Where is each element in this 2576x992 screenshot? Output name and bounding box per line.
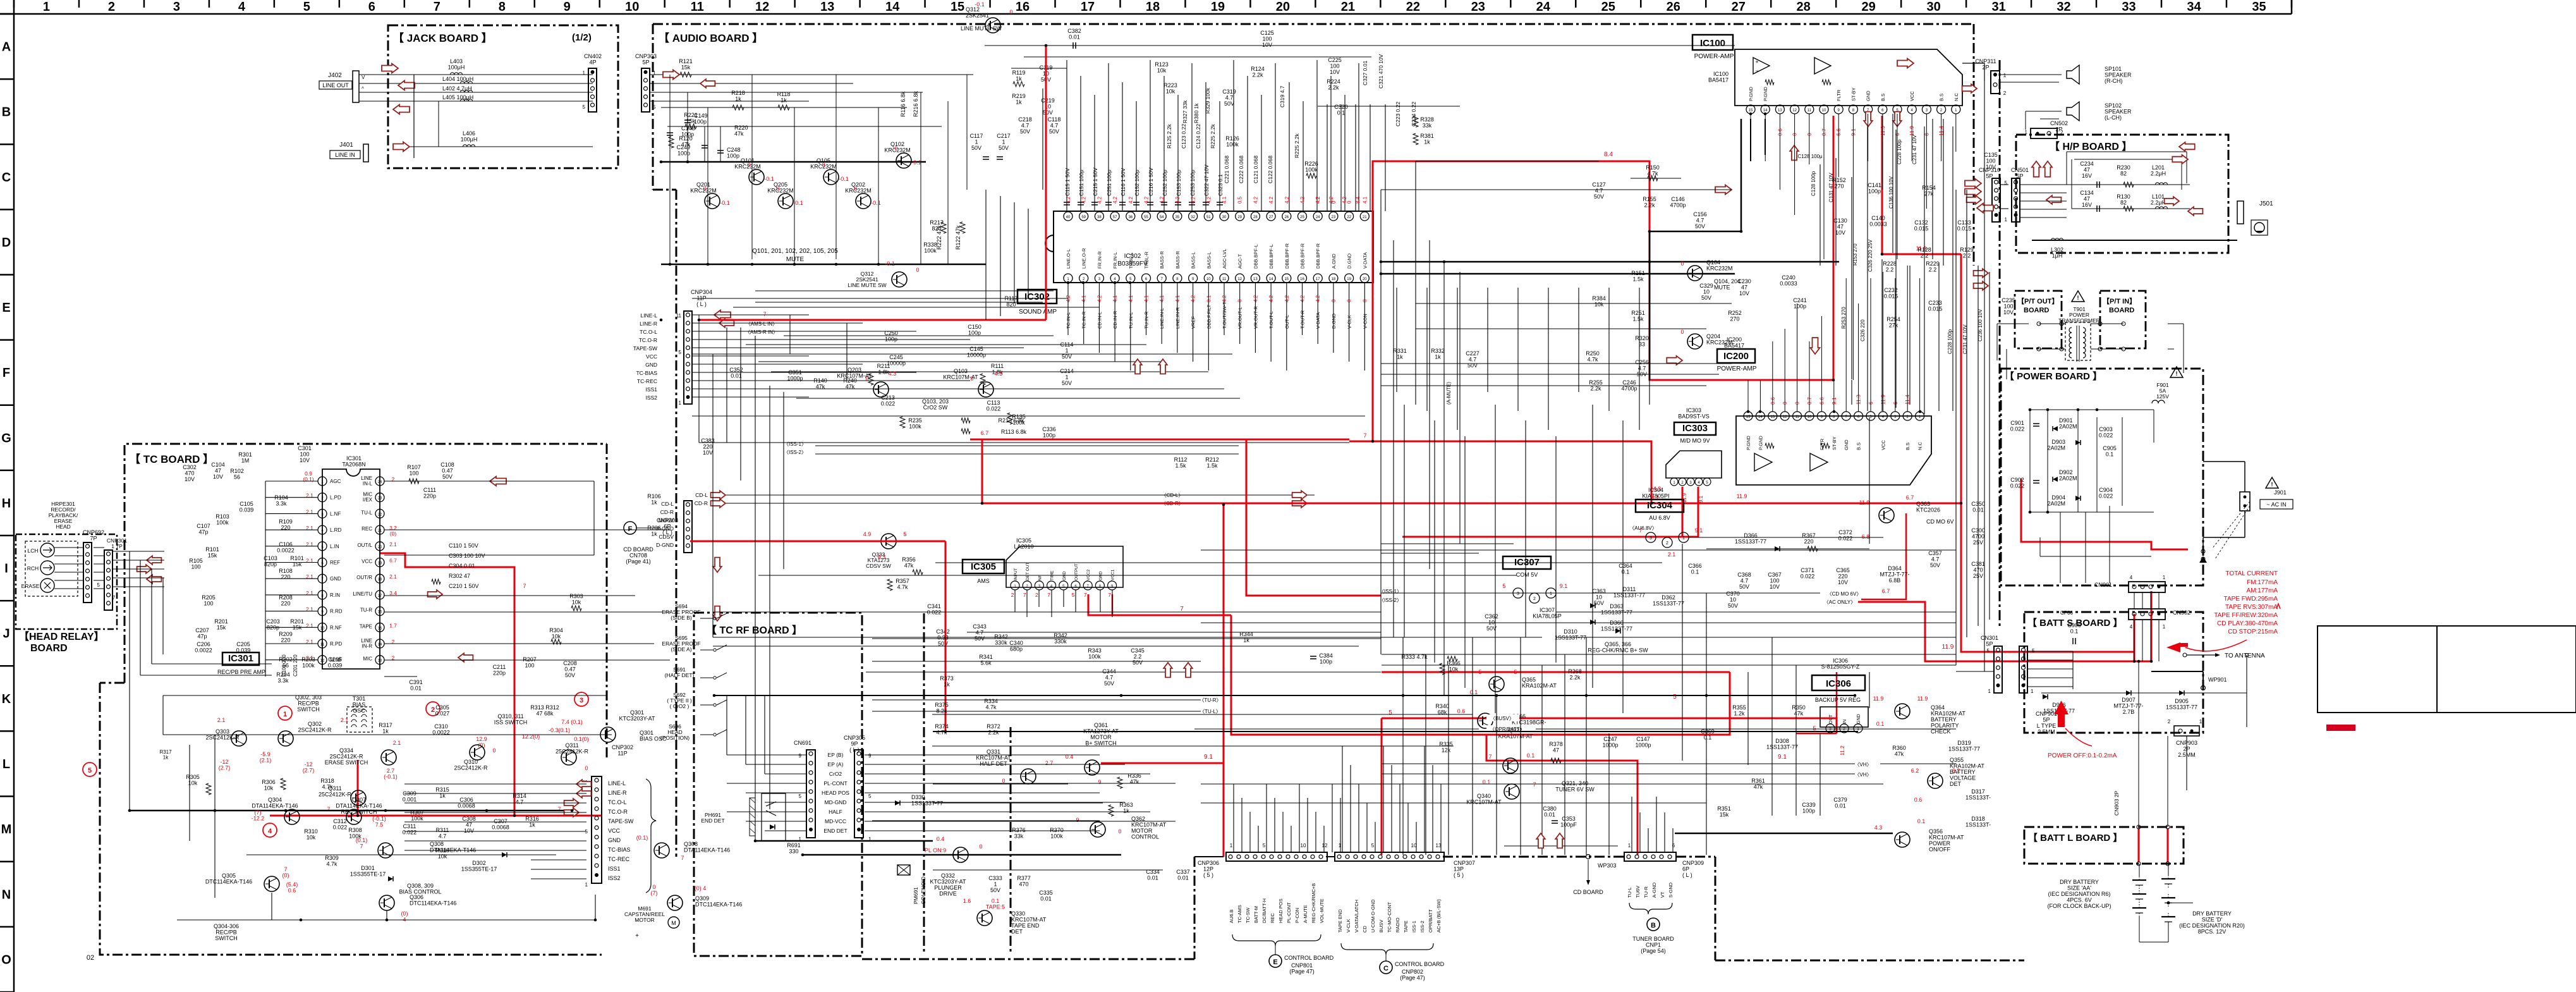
svg-text:9: 9	[1076, 817, 1079, 823]
svg-text:J401: J401	[339, 142, 353, 149]
inductor L406	[463, 145, 475, 147]
svg-text:4.2: 4.2	[1284, 196, 1290, 204]
transistor Q308b	[654, 843, 669, 858]
svg-text:8.4: 8.4	[1355, 196, 1361, 204]
wire bundle IC200 pin ups	[1747, 380, 1749, 412]
svg-text:CN902: CN902	[2173, 609, 2190, 616]
svg-text:4.2: 4.2	[1342, 196, 1347, 204]
wire bundle vertical drops IC302 bottom to lower region	[1067, 283, 1069, 335]
svg-text:TAPE-SW: TAPE-SW	[608, 818, 634, 824]
transistor Q309	[667, 895, 683, 910]
svg-text:LINE-R: LINE-R	[608, 790, 627, 796]
wire C382 top line	[985, 45, 1735, 46]
svg-text:〈ISS-2〉: 〈ISS-2〉	[1379, 597, 1402, 603]
svg-text:1: 1	[43, 0, 50, 14]
power board to CN901 wires	[2060, 512, 2061, 583]
svg-text:4.2: 4.2	[1159, 196, 1165, 204]
svg-text:〈TU-L〉: 〈TU-L〉	[1200, 709, 1221, 714]
transistor Q303	[231, 731, 246, 746]
arrows above IC305	[1133, 359, 1142, 374]
wire bundle IC100-IC200 column verticals	[1867, 126, 1868, 411]
svg-text:3: 3	[1649, 536, 1652, 541]
svg-text:MD-VCC: MD-VCC	[825, 818, 846, 824]
arrow signal flow jack-out2	[393, 105, 410, 114]
svg-text:N.C: N.C	[1953, 93, 1959, 102]
svg-text:11: 11	[320, 643, 325, 647]
svg-text:R126100k: R126100k	[1225, 135, 1239, 148]
svg-text:11: 11	[691, 0, 704, 14]
svg-text:12: 12	[1783, 415, 1787, 419]
svg-text:33: 33	[2122, 0, 2136, 14]
svg-text:ISS2: ISS2	[646, 395, 658, 401]
transistor Q331	[1021, 769, 1036, 784]
wire tc gnd bus	[130, 810, 572, 812]
arrow audio in	[663, 70, 679, 80]
svg-text:9.1: 9.1	[1778, 754, 1787, 761]
svg-text:C327 0.01: C327 0.01	[1362, 61, 1368, 85]
svg-text:C210 1 50V: C210 1 50V	[449, 583, 479, 589]
wire bundle center tall verticals	[985, 190, 987, 320]
wire bundle CNP305 right	[865, 754, 948, 756]
svg-text:VCC: VCC	[361, 559, 372, 565]
svg-text:1: 1	[2163, 575, 2166, 580]
svg-text:0: 0	[776, 186, 779, 192]
wire bundle head relay to tc	[112, 551, 164, 552]
svg-text:D-GND: D-GND	[656, 542, 674, 548]
svg-text:1: 1	[868, 836, 872, 842]
wires IC100 to speakers	[1750, 119, 1751, 161]
red leader arrow	[2185, 640, 2247, 651]
svg-text:C1471000p: C1471000p	[1635, 736, 1651, 749]
svg-text:FR.IN-L: FR.IN-L	[1112, 252, 1118, 269]
svg-text:CD STOP:215mA: CD STOP:215mA	[2228, 628, 2278, 635]
svg-text:C215 1 50V: C215 1 50V	[1092, 168, 1098, 196]
red trace vertical 1554	[981, 439, 983, 503]
svg-text:3.4: 3.4	[389, 590, 397, 596]
svg-text:B.S: B.S	[1880, 94, 1886, 101]
svg-text:5: 5	[1502, 583, 1505, 589]
svg-text:B.S: B.S	[1939, 94, 1945, 101]
svg-text:R235100k: R235100k	[908, 417, 922, 430]
hp board bottom inductor	[2032, 240, 2237, 241]
svg-text:C221 0.068: C221 0.068	[1224, 156, 1230, 183]
svg-text:C101 220: C101 220	[281, 654, 287, 677]
svg-text:0: 0	[970, 376, 973, 382]
svg-text:R327 33k: R327 33k	[1182, 100, 1188, 123]
svg-text:C122 0.068: C122 0.068	[1267, 156, 1273, 183]
svg-text:7: 7	[1488, 754, 1492, 760]
svg-text:F: F	[3, 366, 10, 380]
red tick far right	[2276, 604, 2280, 609]
svg-text:DBB.BPF-R: DBB.BPF-R	[1315, 243, 1321, 269]
wire thick vcc zone	[698, 315, 700, 354]
svg-text:【P/T IN】: 【P/T IN】	[2103, 297, 2136, 305]
wire bundle into CNP302	[531, 783, 586, 785]
svg-text:IC306: IC306	[1826, 678, 1851, 689]
svg-text:C3820.01: C3820.01	[1067, 28, 1081, 40]
svg-text:C3050.027: C3050.027	[435, 704, 450, 717]
svg-text:CD-L: CD-L	[695, 492, 708, 498]
svg-text:15: 15	[378, 627, 382, 630]
svg-text:GND: GND	[1857, 714, 1861, 724]
svg-text:1: 1	[1628, 843, 1631, 848]
wire jack vertical returns	[413, 75, 415, 158]
svg-text:CP06: CP06	[2060, 610, 2074, 616]
svg-text:1: 1	[1682, 536, 1685, 541]
svg-text:TU-R: TU-R	[1643, 886, 1649, 898]
svg-text:20: 20	[1363, 278, 1367, 281]
svg-text:4.2: 4.2	[1128, 196, 1134, 204]
svg-text:LINEIN-R: LINEIN-R	[361, 638, 372, 649]
svg-text:C2400.0033: C2400.0033	[1780, 274, 1797, 287]
svg-text:TU-R: TU-R	[360, 608, 372, 613]
svg-text:R1242.2k: R1242.2k	[1251, 66, 1265, 78]
svg-text:C9010.022: C9010.022	[2010, 420, 2025, 432]
svg-text:2: 2	[2060, 130, 2063, 135]
svg-text:BOARD: BOARD	[2024, 307, 2049, 314]
red trace bottom center network	[1223, 505, 1225, 857]
top ruler ticks and column numbers 1-35	[13, 0, 15, 8]
wire verticals IC305 up	[1014, 590, 1016, 612]
connector CNP901 5P	[2019, 646, 2027, 693]
svg-text:R125 2.2k: R125 2.2k	[1166, 124, 1172, 149]
svg-text:7: 7	[1180, 606, 1184, 613]
svg-text:12: 12	[320, 659, 325, 663]
svg-text:C9040.022: C9040.022	[2099, 487, 2113, 499]
resistor R222 R122 verticals	[941, 222, 946, 233]
svg-text:TC-AMS: TC-AMS	[1237, 905, 1242, 923]
transistor Q310b	[470, 745, 485, 760]
svg-text:L402 4.7μH: L402 4.7μH	[442, 85, 472, 92]
svg-text:MO6V: MO6V	[659, 517, 674, 524]
svg-text:C2060.0022: C2060.0022	[195, 641, 212, 654]
wires from p/t to power board	[1997, 323, 2029, 324]
op-amp IC100 power amp	[1692, 35, 1733, 50]
svg-text:2.1: 2.1	[389, 541, 397, 548]
svg-text:V: V	[361, 75, 365, 80]
wire bundle mute zone verticals	[669, 75, 671, 264]
svg-text:HALF: HALF	[829, 809, 842, 815]
svg-text:POWER OFF:0.1-0.2mA: POWER OFF:0.1-0.2mA	[2048, 752, 2117, 759]
svg-text:35: 35	[1176, 216, 1180, 219]
warning triangle power board	[2170, 367, 2183, 377]
svg-text:C: C	[2, 171, 11, 185]
svg-text:C3090.001: C3090.001	[403, 790, 417, 803]
svg-text:5: 5	[1673, 694, 1677, 701]
svg-text:4.2: 4.2	[1066, 196, 1071, 204]
svg-text:VCC: VCC	[608, 828, 621, 834]
svg-text:R.RD: R.RD	[330, 609, 343, 615]
red trace 9.1 long line y798	[982, 503, 1961, 505]
arrow L406	[393, 142, 410, 152]
svg-text:+: +	[1755, 59, 1758, 65]
svg-text:55: 55	[1144, 216, 1148, 219]
svg-text:15: 15	[1749, 109, 1753, 113]
svg-text:R3184.7k: R3184.7k	[320, 778, 334, 790]
svg-text:C24510000p: C24510000p	[887, 354, 906, 367]
svg-text:C1080.4750V: C1080.4750V	[440, 462, 454, 480]
svg-text:INPUT: INPUT	[1014, 568, 1018, 580]
capacitor C148	[669, 101, 671, 162]
board outline BATT L BOARD	[2024, 827, 2184, 864]
wire bundle audio-in from CNP303	[650, 74, 973, 75]
svg-text:7: 7	[112, 595, 116, 601]
svg-text:4.2: 4.2	[1328, 196, 1334, 204]
svg-text:LINE.O-L: LINE.O-L	[1066, 249, 1071, 269]
svg-text:C103820p: C103820p	[264, 555, 277, 568]
red trace IC303 drops	[1682, 487, 1684, 537]
svg-text:9: 9	[1098, 779, 1101, 785]
svg-text:CNP9015PL TYPE2.5MM: CNP9015PL TYPE2.5MM	[2036, 711, 2057, 735]
transistor Q203	[873, 382, 889, 397]
svg-text:24: 24	[1536, 0, 1551, 14]
svg-text:27: 27	[1269, 216, 1273, 219]
svg-text:C: C	[1383, 965, 1388, 972]
svg-text:0: 0	[916, 267, 919, 273]
svg-text:C248100p: C248100p	[727, 147, 741, 159]
svg-text:R307100k: R307100k	[410, 809, 424, 822]
svg-text:54: 54	[1160, 216, 1164, 219]
svg-text:10: 10	[1301, 843, 1306, 848]
svg-text:TU-L: TU-L	[361, 510, 372, 515]
IC301 label box	[222, 652, 259, 665]
svg-text:CNP801(Page 47): CNP801(Page 47)	[1289, 962, 1315, 975]
svg-text:4.1: 4.1	[1362, 196, 1368, 204]
svg-text:〈VH〉: 〈VH〉	[1854, 762, 1871, 768]
svg-text:VCC1: VCC1	[1111, 569, 1115, 580]
svg-text:C203820p: C203820p	[266, 618, 280, 631]
svg-text:C153 100p: C153 100p	[1176, 169, 1182, 196]
board outline TC BOARD	[125, 444, 607, 683]
svg-text:TU-L: TU-L	[1627, 887, 1632, 898]
svg-text:26: 26	[1284, 216, 1289, 219]
svg-text:14: 14	[378, 643, 382, 647]
svg-text:L406100μH: L406100μH	[461, 130, 478, 143]
svg-text:2: 2	[1035, 592, 1038, 598]
svg-text:ISS-1: ISS-1	[1411, 921, 1417, 933]
svg-text:C251 100p: C251 100p	[1106, 169, 1112, 196]
svg-text:C1464700p: C1464700p	[1670, 196, 1686, 209]
svg-text:O: O	[1, 953, 11, 967]
connector CNP307 13P	[1335, 852, 1444, 861]
contact WP303	[1586, 855, 1591, 859]
svg-text:R113 6.8k: R113 6.8k	[1001, 429, 1027, 435]
wire bundle CNP304 to center	[692, 314, 809, 315]
svg-text:24: 24	[1316, 216, 1320, 219]
speaker SP101	[2067, 65, 2079, 84]
svg-text:R329 100k: R329 100k	[1205, 87, 1211, 114]
svg-text:TO ANTENNA: TO ANTENNA	[2225, 652, 2265, 659]
svg-text:R116 6.8k: R116 6.8k	[900, 91, 906, 117]
svg-text:0.1: 0.1	[1483, 779, 1491, 785]
svg-text:L.RD: L.RD	[330, 527, 341, 533]
svg-text:-0.1: -0.1	[975, 1, 985, 8]
svg-text:7.4 (0.1): 7.4 (0.1)	[561, 719, 583, 725]
transistor Q105	[823, 169, 839, 185]
svg-text:BUSV: BUSV	[1378, 920, 1384, 933]
svg-text:13: 13	[1778, 109, 1782, 113]
svg-text:2.1: 2.1	[393, 740, 401, 746]
hp wires	[2067, 151, 2187, 152]
wires c225 column	[1327, 104, 1328, 211]
svg-text:11.9: 11.9	[1737, 493, 1747, 499]
svg-text:~ AC IN: ~ AC IN	[2266, 501, 2286, 508]
transistor Q307b rec switch	[346, 809, 361, 824]
transistor Q311 iss	[351, 790, 366, 805]
svg-text:0.1: 0.1	[1527, 752, 1535, 759]
svg-text:R117820: R117820	[1005, 295, 1018, 308]
wires head to connectors	[54, 547, 83, 548]
svg-text:7: 7	[1108, 592, 1111, 598]
svg-text:1: 1	[1230, 843, 1233, 848]
svg-text:20: 20	[1276, 0, 1290, 14]
capacitor C249	[704, 126, 705, 162]
svg-text:2: 2	[1533, 597, 1536, 601]
board outline middle divider	[923, 613, 925, 954]
svg-text:【 H/P BOARD 】: 【 H/P BOARD 】	[2050, 141, 2132, 152]
svg-text:5: 5	[799, 793, 802, 799]
svg-text:0: 0	[703, 186, 706, 192]
svg-text:4.3: 4.3	[1653, 486, 1662, 492]
svg-text:EP (B): EP (B)	[828, 752, 844, 758]
svg-text:-0.1: -0.1	[871, 200, 881, 206]
wires motor control	[933, 783, 1068, 785]
svg-text:7: 7	[1639, 527, 1642, 534]
svg-text:GND: GND	[1866, 90, 1871, 101]
svg-text:5: 5	[868, 793, 872, 799]
svg-text:A: A	[2, 40, 11, 54]
svg-text:2: 2	[1011, 592, 1014, 598]
svg-text:GND: GND	[608, 837, 621, 843]
svg-text:11.9: 11.9	[1873, 695, 1884, 702]
svg-text:【 JACK BOARD 】: 【 JACK BOARD 】	[393, 32, 492, 44]
inductor L405	[460, 99, 472, 101]
svg-text:28: 28	[1253, 216, 1258, 219]
svg-text:5: 5	[1813, 725, 1816, 732]
svg-text:AGC: AGC	[330, 479, 341, 484]
svg-text:【 TC RF BOARD 】: 【 TC RF BOARD 】	[707, 625, 802, 636]
svg-text:OUT: OUT	[1829, 714, 1833, 725]
svg-text:40: 40	[1066, 216, 1071, 219]
svg-text:RADIO: RADIO	[1395, 917, 1400, 933]
svg-text:REC: REC	[361, 526, 372, 532]
red trace AC ONLY path	[1858, 602, 2151, 661]
svg-text:C14510000p: C14510000p	[967, 346, 986, 358]
svg-text:A-GND: A-GND	[1651, 882, 1657, 898]
svg-text:5: 5	[653, 104, 656, 110]
svg-text:〈TU-R〉: 〈TU-R〉	[1199, 697, 1221, 703]
transistor Q306	[379, 895, 394, 910]
svg-text:END DET: END DET	[823, 828, 847, 834]
board outline right section divider	[1999, 60, 2001, 626]
circled F CD board	[624, 522, 636, 534]
svg-text:!: !	[2176, 370, 2178, 377]
wire bundle IC302 top vertical columns	[1066, 60, 1067, 211]
svg-text:TRBL-L: TRBL-L	[1128, 252, 1134, 269]
svg-text:1: 1	[1339, 843, 1342, 848]
svg-text:J402: J402	[328, 72, 342, 79]
svg-text:0.1(0): 0.1(0)	[574, 736, 589, 742]
svg-text:〈CD MO 6V〉: 〈CD MO 6V〉	[1827, 591, 1862, 597]
svg-text:4.2: 4.2	[1253, 196, 1258, 204]
transistor Q364	[1895, 704, 1910, 719]
svg-text:TAPE: TAPE	[1403, 921, 1409, 933]
svg-text:C228 100p: C228 100p	[1897, 139, 1902, 164]
circled C control board	[1380, 961, 1392, 974]
red trace line mute drop	[1045, 46, 1047, 320]
svg-text:S-GND: S-GND	[1668, 882, 1674, 898]
transistor Q355	[1928, 773, 1943, 788]
wire bundle bottom verticals center	[1233, 784, 1234, 852]
svg-text:MICI/EX: MICI/EX	[363, 492, 373, 503]
svg-text:COM 5V: COM 5V	[1516, 572, 1538, 578]
svg-text:18: 18	[1146, 0, 1160, 14]
svg-text:C1320.015: C1320.015	[1914, 219, 1929, 232]
capacitor C382	[1072, 42, 1074, 49]
svg-text:7: 7	[1533, 781, 1536, 788]
border frame top ruler line	[0, 13, 2292, 15]
svg-text:−: −	[1755, 68, 1758, 74]
svg-text:R3744.7k: R3744.7k	[935, 723, 949, 736]
svg-text:4: 4	[268, 828, 272, 835]
inductor L402	[460, 90, 472, 92]
svg-text:ISS1: ISS1	[608, 866, 621, 872]
svg-text:N.C: N.C	[1917, 442, 1923, 451]
red circled 3	[574, 692, 588, 706]
svg-text:C3070.0068: C3070.0068	[492, 818, 509, 831]
svg-text:C241100p: C241100p	[1793, 297, 1807, 310]
transistor Q362	[1090, 822, 1105, 837]
warning triangle T901	[2072, 291, 2084, 302]
svg-text:5: 5	[2005, 180, 2008, 186]
wire thick bus y1100	[714, 695, 1855, 696]
svg-text:L404 100μH: L404 100μH	[442, 76, 473, 82]
svg-text:〈AMS-R IN〉: 〈AMS-R IN〉	[745, 329, 778, 335]
svg-text:L1012.2μH: L1012.2μH	[2151, 193, 2166, 206]
svg-text:C124 0.22: C124 0.22	[1195, 124, 1201, 149]
wires hp to connectors	[2020, 184, 2067, 185]
svg-text:R226100k: R226100k	[1304, 161, 1318, 173]
svg-text:14: 14	[885, 0, 900, 14]
connector J901 AC in	[2266, 477, 2278, 488]
svg-text:5: 5	[97, 582, 100, 588]
svg-text:B.S: B.S	[1856, 443, 1862, 450]
svg-text:R153 270: R153 270	[1852, 243, 1858, 266]
curly brace CNP307	[1341, 943, 1433, 955]
svg-text:2.1: 2.1	[389, 573, 397, 580]
svg-text:21: 21	[378, 529, 382, 533]
arrows at IC301 right	[428, 590, 442, 599]
wires tc bottom	[214, 735, 216, 898]
svg-text:5: 5	[583, 104, 586, 110]
svg-text:C1050.039: C1050.039	[240, 501, 254, 513]
svg-text:32: 32	[2057, 0, 2070, 14]
svg-text:【 BATT L BOARD 】: 【 BATT L BOARD 】	[2028, 832, 2122, 843]
transistor Q102	[896, 153, 911, 168]
svg-text:R3415.6k: R3415.6k	[979, 654, 993, 666]
wires CN301 zone	[1956, 671, 1994, 672]
svg-text:LCH: LCH	[27, 548, 38, 554]
svg-text:4.2: 4.2	[1081, 196, 1087, 204]
svg-text:ST-BY: ST-BY	[1832, 436, 1837, 450]
board outline P/T IN BOARD	[2100, 291, 2146, 348]
svg-text:TC-REC: TC-REC	[637, 378, 657, 384]
red circled 4	[263, 823, 277, 837]
svg-text:NF: NF	[1038, 575, 1042, 580]
svg-text:C3800.01: C3800.01	[1543, 805, 1557, 818]
wire bundle jack board line-out	[359, 74, 593, 75]
svg-text:DBB.BPF-L: DBB.BPF-L	[1253, 244, 1258, 269]
